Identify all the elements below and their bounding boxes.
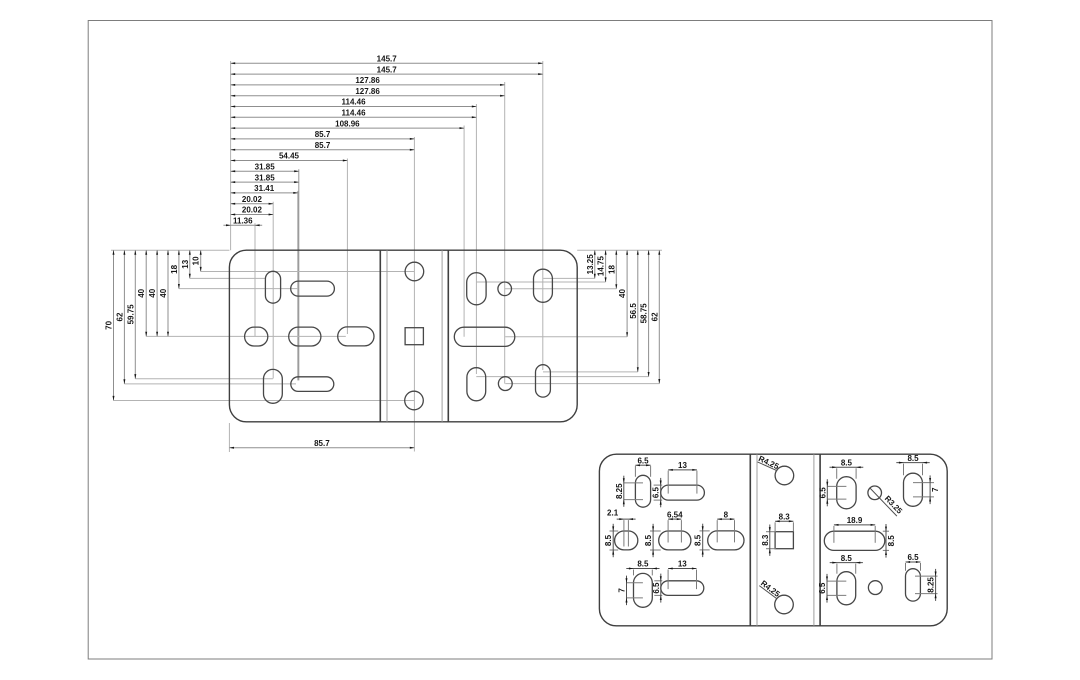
svg-text:8.5: 8.5 — [637, 560, 649, 569]
detail view hole tr_vslot2 — [904, 473, 923, 506]
detail ext lines 6.5 top-left vslot — [634, 466, 636, 477]
svg-text:40: 40 — [148, 288, 157, 297]
main view hole c_bot — [405, 391, 424, 410]
dimension 13 (bottom-left hslot arc distance) — [668, 568, 696, 570]
feature line 59.75 to bottom vslot — [135, 378, 273, 380]
extension line 114.46 to right slot1 col — [475, 104, 477, 374]
detail pointer ticks 6.5 bottom-left hslot — [654, 580, 662, 582]
main view hole br_circ — [498, 377, 512, 391]
svg-text:6.5: 6.5 — [652, 582, 661, 594]
svg-text:40: 40 — [618, 289, 627, 298]
dimension 13.25 (right stack) — [594, 250, 596, 278]
detail ext lines 13 top-left hslot — [667, 471, 669, 494]
svg-text:62: 62 — [115, 312, 124, 321]
detail ext lines 6.54 obround2 — [667, 520, 669, 542]
detail ext lines 8.5 bottom-left vslot — [633, 570, 635, 576]
detail ext lines 8 obround3 — [716, 520, 718, 542]
dimension 7 (top-right vslot2 arc spacing) — [929, 475, 931, 504]
detail pointer lines 6.5 bottom-right vslot1 — [827, 580, 846, 582]
extension line 85.7 to centre circles col — [413, 137, 415, 452]
dimension 8.3 (square height) — [769, 525, 771, 556]
main view hole r_lslot — [454, 327, 515, 346]
main view hole c_top — [405, 262, 424, 281]
extension line left reference — [230, 61, 232, 250]
detail pointer lines 6.5 top-right vslot1 — [827, 485, 846, 487]
detail ext lines 8.3 square top — [774, 522, 776, 531]
dimension 54.45 (top stack #10) — [231, 160, 348, 162]
svg-text:54.45: 54.45 — [279, 152, 300, 161]
detail view bend line thick x=150.9 — [749, 454, 751, 626]
dimension 114.46 (top stack #6) — [231, 116, 477, 118]
detail pointer ticks 6.5 top-left hslot — [654, 484, 663, 486]
feature line 58.75 from bottom-right slot1 — [476, 376, 648, 378]
detail pointer ticks 8.3 square left — [766, 531, 776, 533]
svg-text:8.25: 8.25 — [927, 577, 936, 593]
svg-text:85.7: 85.7 — [315, 141, 331, 150]
svg-text:40: 40 — [137, 288, 146, 297]
leader R4.25 top circle — [758, 462, 778, 471]
dimension 40 (right stack) — [626, 250, 628, 337]
dimension 6.5 (bottom-left hslot height) — [660, 574, 662, 603]
dimension 18 (right stack) — [615, 250, 617, 289]
detail view hole br_vslot2 — [906, 569, 921, 601]
main view hole tl_vslot — [265, 271, 280, 303]
dimension 8.3 (square width) — [775, 520, 793, 522]
extension line 20.02 to vslot col — [272, 202, 274, 379]
dimension 8.5 (long slot height) — [885, 524, 887, 558]
svg-text:31.85: 31.85 — [255, 163, 276, 172]
detail view bend line thick x=220.70000000000002 — [819, 454, 821, 626]
dimension 114.46 (top stack #5) — [231, 106, 477, 108]
main view hole bl_hslot — [291, 377, 334, 392]
feature line 10 to top centre circle — [201, 271, 415, 273]
svg-text:13: 13 — [181, 259, 190, 268]
feature line 18 to top hslot — [179, 288, 298, 290]
svg-text:13.25: 13.25 — [586, 254, 595, 275]
dimension 31.85 (top stack #11) — [231, 170, 299, 172]
detail ext lines 18.9 long slot — [833, 526, 835, 543]
main view hole oval1 — [245, 327, 268, 346]
dimension 62 (right stack) — [658, 250, 660, 383]
dimension 59.75 (left stack) — [134, 250, 136, 379]
feature line 62 from bottom-right circle — [505, 383, 659, 385]
detail view bend line thin x=157.6 — [756, 454, 758, 626]
svg-text:6.5: 6.5 — [652, 486, 661, 498]
svg-text:13: 13 — [678, 461, 687, 470]
reference line plate top edge to left stack — [111, 249, 229, 251]
svg-text:85.7: 85.7 — [315, 130, 331, 139]
svg-text:8.5: 8.5 — [841, 554, 853, 563]
dimension 10 (left stack) — [200, 250, 202, 271]
dimension 40 (left stack) — [156, 250, 158, 336]
dimension 31.41 (top stack #13) — [231, 192, 298, 194]
svg-text:18.9: 18.9 — [847, 516, 863, 525]
svg-text:6.5: 6.5 — [818, 582, 827, 594]
feature line 70 to bottom centre circle — [114, 400, 415, 402]
svg-text:18: 18 — [607, 265, 616, 274]
main view hole tr_vslot2 — [534, 269, 553, 302]
detail view hole c_bot — [775, 595, 794, 614]
svg-text:85.7: 85.7 — [314, 439, 330, 448]
svg-text:6.5: 6.5 — [907, 553, 919, 562]
main view hole tr_vslot1 — [467, 273, 486, 305]
svg-text:6.5: 6.5 — [818, 487, 827, 499]
dimension 6.5 (top-right vslot1 arc spacing) — [826, 479, 828, 506]
dimension 18.9 (long slot arc distance) — [834, 524, 875, 526]
main view bend line thick x=218.9 — [447, 250, 449, 422]
svg-text:127.86: 127.86 — [355, 87, 380, 96]
dimension 8.5 (oval height) — [612, 524, 614, 557]
dimension 127.86 (top stack #4) — [231, 95, 505, 97]
detail view hole bl_hslot — [661, 581, 704, 596]
dimension 85.7 (bottom) — [229, 447, 414, 449]
svg-text:8.5: 8.5 — [644, 534, 653, 546]
detail pointer lines 8.25 top-left vslot — [624, 482, 643, 484]
extension line 31.41 to obround2 left arc — [297, 191, 299, 381]
main view hole square — [405, 328, 423, 345]
svg-text:8.3: 8.3 — [779, 513, 791, 522]
detail view hole bl_vslot — [634, 573, 653, 607]
svg-text:62: 62 — [650, 312, 659, 321]
dimension 6.5 (top-left hslot height) — [660, 478, 662, 507]
detail view hole ob3 — [708, 531, 744, 550]
svg-text:20.02: 20.02 — [242, 206, 263, 215]
svg-text:6.5: 6.5 — [637, 456, 649, 465]
detail view hole c_top — [775, 466, 794, 485]
detail pointer ticks 8.5 oval height — [610, 530, 619, 532]
dimension 13 (left stack) — [189, 250, 191, 278]
svg-text:58.75: 58.75 — [640, 303, 649, 324]
dimension 31.85 (top stack #12) — [231, 181, 299, 183]
dimension 14.75 (right stack) — [605, 250, 607, 282]
main view hole tr_circ — [498, 282, 512, 296]
detail view hole br_vslot1 — [837, 572, 856, 605]
reference line plate top edge to right stack — [577, 249, 662, 251]
dimension 8.5 (obround2 height) — [652, 524, 654, 557]
dimension 2.1 (oval arc centre offset) — [617, 518, 636, 520]
dimension 20.02 (top stack #14) — [231, 203, 274, 205]
feature line 18 from top-right circle — [505, 288, 617, 290]
feature line 56.5 from bottom-right slot2 — [543, 371, 638, 373]
detail pointer lines 7 bottom-left vslot — [627, 582, 643, 584]
svg-text:13: 13 — [678, 560, 687, 569]
dimension 108.96 (top stack #7) — [231, 127, 465, 129]
extension line 127.86 to small circles col — [504, 82, 506, 384]
main view hole br_vslot1 — [467, 368, 486, 401]
svg-text:145.7: 145.7 — [377, 55, 398, 64]
dimension 40 (left stack) — [145, 250, 147, 336]
detail view bend line thin x=214.5 — [813, 454, 815, 626]
dimension 11.36 (top stack #16) — [223, 224, 262, 226]
svg-text:114.46: 114.46 — [341, 98, 366, 107]
dimension 20.02 (top stack #15) — [231, 214, 274, 216]
svg-text:8.3: 8.3 — [761, 534, 770, 546]
extension line 31.85 to hslot left arcs — [298, 169, 300, 380]
svg-text:8.5: 8.5 — [604, 534, 613, 546]
svg-text:145.7: 145.7 — [377, 65, 398, 74]
svg-text:8.5: 8.5 — [841, 459, 853, 468]
dimension 8.25 (top-left vslot arc spacing) — [623, 476, 625, 507]
svg-text:8.5: 8.5 — [887, 535, 896, 547]
dimension 8.5 (top-right vslot1 width) — [830, 466, 864, 468]
main view hole ob2 — [289, 327, 321, 346]
dimension 40 (left stack) — [167, 250, 169, 336]
svg-text:7: 7 — [618, 588, 627, 593]
leader R3.25 small circle — [870, 488, 897, 516]
dimension 70 (left stack) — [113, 250, 115, 400]
dimension 8.5 (bottom-left vslot width) — [626, 568, 659, 570]
feature line 13.25 from top-right slot2 — [543, 277, 595, 279]
main view hole tl_hslot — [291, 281, 335, 296]
dimension 8.5 (top-right vslot2 width) — [896, 462, 929, 464]
dimension 127.86 (top stack #3) — [231, 84, 505, 86]
detail pointer ticks 8.5 obround3 height — [700, 530, 710, 532]
detail view hole tr_circ — [868, 486, 882, 500]
svg-text:11.36: 11.36 — [233, 217, 253, 226]
svg-text:6.54: 6.54 — [667, 510, 683, 519]
detail view hole square — [775, 532, 793, 549]
svg-text:20.02: 20.02 — [242, 195, 263, 204]
svg-text:40: 40 — [159, 288, 168, 297]
svg-text:8.5: 8.5 — [907, 454, 919, 463]
detail ext lines 8.5 top-right vslot1 — [836, 468, 838, 478]
svg-text:2.1: 2.1 — [607, 509, 619, 518]
detail view hole oval1 — [615, 531, 638, 550]
dimension 85.7 (top stack #8) — [231, 138, 415, 140]
feature line 13 to top vslot arc — [190, 277, 265, 279]
detail view plate outline — [599, 454, 947, 626]
svg-text:31.85: 31.85 — [255, 173, 276, 182]
main view plate outline — [229, 250, 577, 422]
detail view hole tl_hslot — [661, 485, 705, 500]
svg-text:70: 70 — [105, 320, 114, 329]
detail view hole br_circ — [868, 581, 882, 595]
extension line 145.7 to right top+bottom slot col — [542, 61, 544, 370]
svg-text:127.86: 127.86 — [355, 76, 380, 85]
dimension 8.5 (bottom-right vslot1 width) — [830, 562, 863, 564]
dimension 13 (top-left hslot arc distance) — [668, 469, 697, 471]
main view bend line thin x=212.7 — [441, 250, 443, 422]
detail pointer lines 8.25 bottom-right vslot2 — [915, 575, 938, 577]
svg-text:114.46: 114.46 — [341, 109, 366, 118]
main view hole bl_vslot — [264, 369, 283, 403]
svg-text:59.75: 59.75 — [126, 304, 135, 325]
detail ext lines 8.5 bottom-right vslot1 — [836, 564, 838, 574]
extension line 11.36 to oval1 centre — [254, 223, 256, 336]
detail ext lines 2.1 oval arc centres — [623, 520, 625, 546]
detail ext lines 6.5 bottom-right vslot2 — [905, 563, 907, 571]
detail view hole r_lslot — [824, 531, 885, 550]
main view hole ob3 — [338, 327, 374, 346]
dimension 6.54 (obround2 arc distance) — [668, 518, 681, 520]
extension line 54.45 to obround3 left arc — [346, 159, 348, 335]
dimension 6.5 (bottom-right vslot2 width) — [906, 561, 921, 563]
dimension 58.75 (right stack) — [648, 250, 650, 376]
page border frame — [88, 21, 992, 660]
dimension 145.7 (top stack #2) — [231, 73, 543, 75]
svg-text:14.75: 14.75 — [597, 256, 606, 277]
main view hole br_vslot2 — [536, 365, 551, 397]
dimension 62 (left stack) — [123, 250, 125, 384]
dimension 8.25 (bottom-right vslot2 arc spacing) — [935, 569, 937, 601]
svg-text:10: 10 — [192, 256, 201, 265]
dimension 85.7 (top stack #9) — [231, 149, 415, 151]
svg-text:31.41: 31.41 — [254, 184, 275, 193]
dimension 18 (left stack) — [178, 250, 180, 288]
detail pointer lines 7 top-right vslot2 — [913, 482, 934, 484]
extension line plate left edge below (for 85.7 bottom dim) — [228, 423, 230, 452]
dimension 145.7 (top stack #1) — [231, 62, 543, 64]
svg-text:18: 18 — [170, 264, 179, 273]
feature line 40 from long slot right arc — [505, 336, 627, 338]
dimension 6.5 (top-left vslot width) — [635, 464, 650, 466]
svg-text:8.5: 8.5 — [694, 534, 703, 546]
detail pointer ticks 8.5 obround2 height — [650, 530, 661, 532]
main view bend line thick x=150.9 — [379, 250, 381, 422]
feature line 14.75 from top-right slot1 — [476, 281, 605, 283]
dimension 6.5 (bottom-right vslot1 arc spacing) — [826, 574, 828, 603]
main view bend line thin x=157.6 — [386, 250, 388, 422]
detail ext lines 13 bottom-left hslot — [667, 570, 669, 590]
dimension 8 (obround3 arc distance) — [717, 518, 734, 520]
feature line 40 row centre line — [146, 335, 346, 337]
leader R4.25 bottom circle — [759, 586, 776, 599]
feature line 62 to bottom hslot left arc — [124, 383, 296, 385]
dimension 8.5 (obround3 height) — [702, 524, 704, 557]
detail view hole tr_vslot1 — [837, 477, 856, 509]
dimension 56.5 (right stack) — [637, 250, 639, 372]
detail view hole ob2 — [659, 531, 691, 550]
svg-text:7: 7 — [931, 487, 940, 492]
svg-text:108.96: 108.96 — [335, 119, 360, 128]
dimension 7 (bottom-left vslot arc spacing) — [626, 576, 628, 606]
svg-text:8: 8 — [724, 510, 729, 519]
svg-text:56.5: 56.5 — [629, 303, 638, 319]
detail pointer ticks 8.5 long slot height — [883, 530, 889, 532]
svg-text:8.25: 8.25 — [615, 483, 624, 499]
detail view hole tl_vslot — [635, 475, 650, 507]
extension line 108.96 to long slot left arc — [463, 126, 465, 337]
detail ext lines 8.5 top-right vslot2 — [903, 464, 905, 476]
